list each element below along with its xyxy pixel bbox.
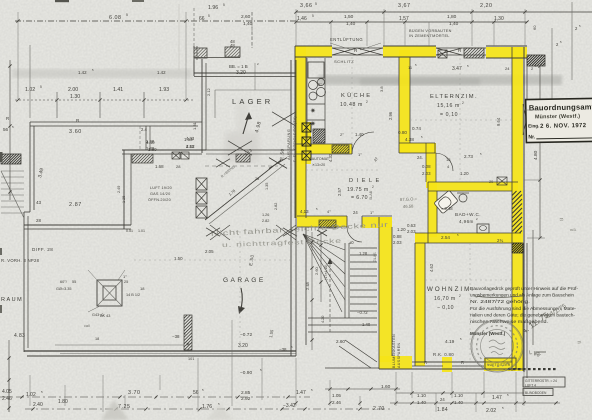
smudge blob near cross mark bbox=[225, 132, 259, 162]
svg-text:4.20: 4.20 bbox=[321, 316, 325, 323]
svg-text:15,16 m: 15,16 m bbox=[437, 103, 460, 109]
svg-text:4.19: 4.19 bbox=[445, 339, 455, 345]
highlighted flue boxes in kitchen west wall bbox=[301, 122, 311, 164]
svg-text:20: 20 bbox=[489, 180, 493, 184]
door arc diele south bbox=[347, 227, 362, 242]
svg-text:1.01: 1.01 bbox=[138, 229, 145, 233]
window between B and C bbox=[436, 47, 486, 49]
svg-text:−0.90: −0.90 bbox=[240, 370, 252, 376]
hatched block left edge bbox=[1, 154, 21, 164]
svg-text:1.47: 1.47 bbox=[296, 390, 306, 396]
svg-text:2.54: 2.54 bbox=[441, 235, 450, 240]
svg-text:18: 18 bbox=[140, 286, 145, 291]
svg-text:✕: ✕ bbox=[186, 342, 190, 348]
vertical witness lines bottom bbox=[8, 358, 10, 412]
svg-text:−0.72: −0.72 bbox=[357, 310, 368, 315]
garage inner south line bbox=[55, 344, 184, 346]
svg-text:1.41: 1.41 bbox=[113, 87, 123, 93]
extra ticks row y393 left of wohnzim bbox=[328, 387, 331, 390]
svg-text:28: 28 bbox=[255, 177, 259, 181]
svg-text:1.50: 1.50 bbox=[174, 256, 183, 261]
top dimension chain row1 right bbox=[296, 11, 592, 13]
svg-text:1,30: 1,30 bbox=[494, 16, 504, 22]
vertical dim lines left of stairs bbox=[311, 232, 313, 350]
diele floor faint lines bbox=[306, 169, 379, 171]
svg-text:R: R bbox=[424, 360, 427, 365]
svg-text:101: 101 bbox=[188, 357, 194, 361]
paper crease faint vertical bbox=[178, 4, 180, 70]
svg-text:4.80: 4.80 bbox=[533, 150, 539, 160]
svg-text:1°: 1° bbox=[370, 210, 374, 215]
door arc kitchen bbox=[352, 132, 374, 154]
svg-text:3.70: 3.70 bbox=[128, 390, 141, 396]
svg-text:R: R bbox=[6, 116, 9, 121]
svg-text:F. EL. STEIGLEITG.(TV): F. EL. STEIGLEITG.(TV) bbox=[293, 116, 297, 162]
top edge dashes bbox=[55, 0, 69, 2]
svg-text:ENTLÜFTUNG: ENTLÜFTUNG bbox=[330, 37, 363, 42]
svg-text:3,66: 3,66 bbox=[300, 3, 313, 9]
chimney block detail bbox=[97, 280, 122, 306]
pencil cross marks bbox=[228, 141, 252, 155]
svg-text:SCHLITZ: SCHLITZ bbox=[334, 59, 354, 64]
svg-text:GØ=3.35: GØ=3.35 bbox=[56, 287, 72, 291]
bauordnungsamt stamp box bbox=[526, 98, 592, 142]
svg-text:2,60: 2,60 bbox=[241, 14, 251, 20]
highlighted wall: stair west wall V4 bbox=[379, 217, 392, 362]
svg-text:1.47: 1.47 bbox=[492, 395, 502, 401]
highlighted wall: V4 foot bbox=[379, 356, 412, 369]
stair bottom flight diagonals bbox=[345, 340, 377, 362]
hatched sill in H2 wall bbox=[332, 145, 349, 153]
svg-text:4.62: 4.62 bbox=[429, 263, 434, 272]
wall y152 left of lager bbox=[122, 149, 206, 151]
window in north wall of kitchen (entlueftung) bbox=[332, 47, 383, 49]
svg-text:= 0,10: = 0,10 bbox=[440, 112, 458, 118]
svg-text:1,57: 1,57 bbox=[399, 16, 409, 22]
svg-text:ELTERNZIM.: ELTERNZIM. bbox=[430, 94, 478, 100]
long diagonal in annex bbox=[205, 160, 281, 220]
svg-text:Nr.: Nr. bbox=[528, 134, 536, 140]
svg-text:5: 5 bbox=[208, 14, 210, 18]
highlighted wall: living room south-west stub pier bbox=[442, 357, 452, 372]
stair wedge diagonals bbox=[303, 234, 345, 250]
svg-text:2.85: 2.85 bbox=[241, 390, 251, 396]
svg-text:1.40: 1.40 bbox=[362, 322, 371, 327]
main house bottom wall lines bbox=[379, 368, 524, 370]
svg-text:1,46: 1,46 bbox=[297, 16, 307, 22]
highlighted wall: kitchen south wall H2 bbox=[295, 144, 352, 154]
faint grid lines interior bbox=[214, 90, 216, 118]
north jog wall x146 bbox=[145, 126, 147, 150]
svg-text:43: 43 bbox=[36, 200, 42, 205]
svg-text:E.50: E.50 bbox=[279, 148, 285, 160]
highlighted wall: top wall segment A bbox=[295, 46, 332, 57]
svg-text:55: 55 bbox=[72, 280, 76, 284]
svg-text:LUFT 19/20: LUFT 19/20 bbox=[150, 186, 172, 190]
living room east wall lines bbox=[511, 243, 513, 371]
hatched stub garage south-east bbox=[184, 315, 192, 350]
svg-text:3.20: 3.20 bbox=[238, 343, 248, 349]
svg-text:2: 2 bbox=[462, 101, 464, 105]
round official stamp bbox=[471, 320, 523, 372]
kitchen counter line bbox=[306, 58, 308, 140]
svg-text:−0.72: −0.72 bbox=[240, 332, 252, 338]
svg-text:2.96: 2.96 bbox=[388, 111, 393, 120]
svg-text:R: R bbox=[461, 360, 464, 365]
garage interior faint lines bbox=[134, 259, 291, 261]
svg-text:56: 56 bbox=[3, 127, 9, 132]
vertical dashed line x140 bbox=[139, 126, 141, 150]
svg-text:Nr. 2487/72 gehörig.: Nr. 2487/72 gehörig. bbox=[470, 299, 530, 304]
svg-text:1.84: 1.84 bbox=[437, 407, 448, 413]
svg-text:2: 2 bbox=[372, 185, 374, 189]
svg-text:3.60: 3.60 bbox=[69, 129, 82, 135]
svg-text:2¾: 2¾ bbox=[497, 238, 503, 243]
svg-text:4.83: 4.83 bbox=[14, 333, 25, 339]
svg-text:10.48 m: 10.48 m bbox=[340, 102, 363, 108]
left vertical chain bottom bbox=[8, 340, 10, 412]
living room west wall pencil bbox=[414, 243, 416, 366]
svg-text:3.20: 3.20 bbox=[236, 70, 246, 76]
door arc bath bbox=[435, 153, 453, 171]
svg-text:2.70: 2.70 bbox=[373, 406, 385, 412]
svg-text:−38: −38 bbox=[172, 334, 180, 339]
bottom dimension line left bbox=[0, 396, 310, 398]
svg-text:2.49: 2.49 bbox=[117, 186, 121, 193]
svg-text:GAS 14/20: GAS 14/20 bbox=[150, 192, 170, 196]
upper area long dashdot vertical bbox=[251, 12, 253, 46]
svg-text:4,13: 4,13 bbox=[300, 209, 309, 214]
hatched sill in H4 wall bbox=[319, 220, 336, 228]
svg-text:2 6. NOV. 1972: 2 6. NOV. 1972 bbox=[540, 123, 587, 130]
east outside witness lines bbox=[527, 65, 545, 67]
svg-text:BÜGEN VORBAUTEN: BÜGEN VORBAUTEN bbox=[409, 29, 452, 33]
svg-text:KÜCHE: KÜCHE bbox=[341, 92, 372, 99]
door sill box elternzim to bath bbox=[497, 177, 507, 185]
elternzim faint cross lines bbox=[410, 119, 512, 121]
svg-text:3,67: 3,67 bbox=[398, 3, 411, 9]
luftgitter box border bbox=[485, 358, 516, 369]
svg-text:2.02: 2.02 bbox=[486, 408, 496, 414]
svg-text:1°: 1° bbox=[358, 152, 362, 157]
svg-text:5: 5 bbox=[126, 13, 128, 17]
south wall window lines living room bbox=[412, 361, 443, 363]
svg-text:1,50: 1,50 bbox=[344, 14, 354, 20]
svg-text:0.88: 0.88 bbox=[393, 234, 402, 239]
svg-text:2.05: 2.05 bbox=[205, 249, 214, 254]
svg-text:2.82: 2.82 bbox=[274, 203, 278, 210]
svg-text:1.80: 1.80 bbox=[58, 399, 68, 405]
svg-text:24: 24 bbox=[353, 210, 358, 215]
lager north wall bbox=[194, 57, 240, 59]
wall y150 extension across annex bbox=[206, 149, 296, 151]
highlighted wall: top wall segment C bbox=[486, 47, 527, 58]
svg-text:BLUMENKASTEN: BLUMENKASTEN bbox=[392, 334, 396, 368]
svg-text:24: 24 bbox=[505, 66, 510, 71]
bath walls pencil bbox=[428, 181, 518, 183]
svg-text:5: 5 bbox=[40, 85, 42, 89]
hatched piers on wall y154 bbox=[132, 154, 153, 163]
svg-text:87.G.O.=: 87.G.O.= bbox=[400, 196, 418, 202]
svg-text:4.05: 4.05 bbox=[2, 389, 12, 395]
kitchen walls pencil lines bbox=[295, 45, 332, 47]
svg-text:LAGER: LAGER bbox=[232, 97, 273, 106]
svg-text:AUSSPAREN: AUSSPAREN bbox=[397, 342, 401, 368]
svg-text:0.08: 0.08 bbox=[422, 164, 431, 169]
highlighted wall: luftgitter box on south wall bbox=[484, 358, 517, 371]
svg-text:BLINDBODEN: BLINDBODEN bbox=[525, 391, 547, 395]
highlighted wall: living room east wall bbox=[512, 243, 523, 371]
bath east wall hatching bbox=[512, 191, 522, 233]
svg-text:0.80: 0.80 bbox=[398, 130, 407, 135]
svg-text:0.63: 0.63 bbox=[407, 223, 416, 228]
svg-text:1.10: 1.10 bbox=[454, 393, 463, 398]
svg-text:1.40: 1.40 bbox=[146, 139, 155, 144]
svg-text:1,40: 1,40 bbox=[243, 21, 253, 27]
left vertical dim x10 bbox=[9, 60, 11, 200]
svg-text:2.73: 2.73 bbox=[464, 154, 473, 159]
svg-text:±0: ±0 bbox=[349, 240, 354, 245]
stair west boundary line bbox=[305, 227, 307, 345]
svg-text:Eing.: Eing. bbox=[528, 123, 539, 128]
svg-text:4.32: 4.32 bbox=[328, 153, 333, 162]
highlighted wall: diele north wall H3 bbox=[399, 143, 435, 153]
svg-text:call: call bbox=[84, 324, 90, 328]
svg-text:1.20: 1.20 bbox=[397, 227, 406, 232]
svg-text:2.60: 2.60 bbox=[314, 266, 319, 275]
svg-text:2 AUTOMAT: 2 AUTOMAT bbox=[309, 157, 330, 161]
east wall window cross marks elternzim bbox=[523, 104, 530, 135]
svg-text:2.82: 2.82 bbox=[262, 219, 269, 223]
svg-text:60°/: 60°/ bbox=[60, 280, 68, 284]
svg-text:GLAS: GLAS bbox=[373, 252, 377, 262]
svg-text:AUSSPARUNG: AUSSPARUNG bbox=[287, 129, 291, 160]
svg-text:2.87: 2.87 bbox=[69, 202, 82, 208]
svg-text:1.30: 1.30 bbox=[70, 94, 80, 100]
svg-text:D I E L E: D I E L E bbox=[349, 178, 380, 184]
svg-text:2,20: 2,20 bbox=[480, 3, 493, 9]
svg-text:4°: 4° bbox=[327, 209, 331, 214]
svg-text:2°: 2° bbox=[318, 82, 322, 87]
svg-text:2.12: 2.12 bbox=[206, 87, 211, 96]
svg-text:R.K. 0.80: R.K. 0.80 bbox=[433, 352, 454, 357]
svg-text:1.80: 1.80 bbox=[146, 146, 155, 151]
svg-text:≈ 0,48: ≈ 0,48 bbox=[441, 206, 453, 211]
highlighted wall: diele south wall H4 bbox=[297, 216, 347, 227]
svg-text:1.28: 1.28 bbox=[359, 251, 368, 256]
small box with X near B end bbox=[438, 50, 447, 58]
hatched block right of segment C bbox=[527, 55, 545, 66]
scanner smudge band right bbox=[318, 75, 562, 85]
highlighted wall: bath north wall bbox=[428, 182, 518, 191]
highlighted wall: main house NW vertical (kitchen west) bbox=[295, 46, 306, 218]
lager north arrow bbox=[243, 114, 249, 134]
svg-text:6.08: 6.08 bbox=[109, 15, 122, 21]
svg-text:4,96m: 4,96m bbox=[459, 219, 474, 224]
svg-text:66: 66 bbox=[199, 16, 205, 22]
svg-text:48: 48 bbox=[230, 43, 235, 48]
svg-text:0.51: 0.51 bbox=[126, 229, 133, 233]
dashed line y166 annex bbox=[205, 165, 278, 167]
svg-text:5: 5 bbox=[223, 3, 225, 7]
highlighted wall: bath west wall bbox=[428, 182, 437, 237]
svg-text:2°: 2° bbox=[340, 132, 344, 137]
wall between lager annex and left part bbox=[201, 59, 203, 153]
svg-text:1.96: 1.96 bbox=[208, 5, 218, 11]
svg-text:(17×4,10): (17×4,10) bbox=[324, 265, 328, 280]
svg-text:1.26: 1.26 bbox=[262, 213, 269, 217]
kitchen dark hatch unit bbox=[313, 129, 325, 143]
svg-text:2.03: 2.03 bbox=[422, 171, 431, 176]
outer wall lines: left building bbox=[30, 121, 202, 123]
svg-text:✕13×20: ✕13×20 bbox=[312, 163, 325, 167]
svg-text:LUFT 4: LUFT 4 bbox=[525, 384, 536, 388]
highlighted wall: top wall segment B bbox=[383, 46, 436, 57]
svg-text:1.31: 1.31 bbox=[192, 121, 197, 130]
svg-text:1.40: 1.40 bbox=[417, 400, 426, 405]
svg-text:Bauordnungsamt: Bauordnungsamt bbox=[529, 102, 592, 112]
highlighted wall: H4 stub to stair wall bbox=[362, 217, 392, 228]
annex west wall bbox=[193, 46, 195, 76]
svg-text:25: 25 bbox=[124, 280, 128, 284]
cross braces in annex bbox=[210, 225, 230, 240]
svg-text:2.57: 2.57 bbox=[337, 187, 342, 196]
bath sink bbox=[459, 194, 467, 202]
svg-text:0.74: 0.74 bbox=[412, 126, 421, 131]
highlighted wall: living room west wall bbox=[415, 233, 425, 366]
svg-text:BB. = 1 B: BB. = 1 B bbox=[229, 64, 248, 69]
garage north wall bbox=[24, 224, 131, 226]
gitterrost label boxes bbox=[523, 377, 565, 387]
stair walk line arrow bbox=[329, 262, 331, 332]
bottom smudge triangle bbox=[101, 400, 129, 420]
svg-text:ÖFFN.20/20: ÖFFN.20/20 bbox=[148, 198, 171, 202]
svg-text:1.68: 1.68 bbox=[155, 164, 164, 169]
svg-text:1.40: 1.40 bbox=[454, 400, 463, 405]
svg-text:≈≈: ≈≈ bbox=[570, 227, 578, 234]
staircase treads main house bbox=[350, 247, 377, 249]
svg-text:2: 2 bbox=[366, 100, 368, 104]
flue boxes near lager wall bbox=[196, 178, 207, 190]
highlighted wall: bath south wall bbox=[415, 233, 521, 243]
left building external stair bbox=[1, 170, 24, 172]
svg-text:Münster (Westf.): Münster (Westf.) bbox=[535, 114, 580, 121]
top dimension chain row1 left bbox=[15, 20, 296, 22]
svg-text:1,40: 1,40 bbox=[449, 21, 459, 27]
bathtub bbox=[434, 190, 458, 214]
svg-text:1.42: 1.42 bbox=[78, 70, 87, 75]
svg-text:18: 18 bbox=[95, 337, 99, 341]
svg-text:2: 2 bbox=[459, 294, 461, 298]
hatched pier in north window bbox=[464, 48, 484, 58]
svg-text:2.00: 2.00 bbox=[68, 87, 78, 93]
svg-text:2.03: 2.03 bbox=[407, 229, 416, 234]
svg-text:1.10: 1.10 bbox=[417, 393, 426, 398]
svg-text:1.93: 1.93 bbox=[159, 87, 169, 93]
svg-text:−38: −38 bbox=[279, 347, 287, 352]
svg-text:1.35: 1.35 bbox=[265, 183, 269, 190]
inner vertical wall x124 bbox=[123, 150, 125, 229]
svg-text:46.58: 46.58 bbox=[403, 203, 414, 209]
svg-text:28: 28 bbox=[176, 164, 181, 169]
svg-text:2.46: 2.46 bbox=[332, 400, 341, 405]
svg-text:2.40: 2.40 bbox=[33, 402, 43, 408]
svg-text:24: 24 bbox=[440, 397, 445, 402]
vertical reference lines top area bbox=[29, 45, 31, 118]
svg-text:24.: 24. bbox=[417, 155, 423, 160]
kitchen sink circles bbox=[309, 81, 318, 90]
svg-text:DIFF. 28: DIFF. 28 bbox=[32, 247, 53, 252]
svg-text:28: 28 bbox=[36, 218, 41, 223]
diele / stair walls pencil bbox=[297, 215, 347, 217]
svg-text:= 6.70: = 6.70 bbox=[351, 195, 368, 201]
kitchen fridge box bbox=[308, 62, 324, 78]
left edge dark dashes bbox=[0, 152, 3, 162]
svg-text:4.38: 4.38 bbox=[405, 137, 414, 142]
wc bbox=[477, 224, 489, 233]
svg-text:16,70 m: 16,70 m bbox=[434, 296, 456, 302]
svg-text:3.8: 3.8 bbox=[379, 86, 384, 92]
svg-text:5: 5 bbox=[312, 14, 314, 18]
north porch piers bbox=[194, 48, 207, 58]
svg-text:1,80: 1,80 bbox=[447, 14, 457, 20]
svg-text:1°: 1° bbox=[123, 274, 127, 279]
svg-text:✷: ✷ bbox=[310, 107, 316, 115]
chimney leader lines bbox=[88, 270, 97, 280]
top dimension chain row2 right bbox=[296, 21, 527, 23]
highlighted wall: bath jog at H3 bbox=[426, 143, 436, 188]
svg-text:1.42: 1.42 bbox=[157, 70, 166, 75]
svg-text:R. VORH. 3 NP28: R. VORH. 3 NP28 bbox=[1, 258, 40, 263]
witness lines top chains bbox=[295, 9, 297, 46]
svg-text:− 0,10: − 0,10 bbox=[437, 305, 454, 311]
svg-text:9.64: 9.64 bbox=[496, 117, 501, 126]
svg-text:60: 60 bbox=[532, 25, 537, 30]
svg-text:2.48: 2.48 bbox=[305, 281, 310, 290]
svg-text:IN ZEMENTMÖRTEL: IN ZEMENTMÖRTEL bbox=[409, 34, 450, 38]
svg-text:−3.42: −3.42 bbox=[283, 403, 296, 409]
svg-text:1.40: 1.40 bbox=[355, 132, 364, 137]
kitchen flue boxes with X bbox=[302, 123, 311, 132]
wohnzim faint lines bbox=[425, 279, 512, 281]
svg-text:RAUM: RAUM bbox=[1, 297, 23, 303]
svg-text:WOHNZIM.: WOHNZIM. bbox=[427, 286, 475, 293]
highlighted wall: east wall upper (V5) bbox=[512, 47, 523, 243]
svg-text:1 25: 1 25 bbox=[122, 196, 126, 203]
round stamp arc text bbox=[517, 346, 518, 348]
svg-text:19.75 m: 19.75 m bbox=[347, 187, 369, 193]
main house east wall outer line bbox=[523, 47, 525, 372]
svg-text:14 B 1/2: 14 B 1/2 bbox=[126, 293, 140, 297]
svg-text:3.47: 3.47 bbox=[452, 66, 462, 72]
highlighted wall: kitchen east wall V2 bbox=[399, 50, 410, 153]
svg-text:2.4: 2.4 bbox=[141, 127, 147, 132]
svg-text:5: 5 bbox=[315, 2, 317, 6]
svg-text:2.60: 2.60 bbox=[336, 339, 345, 344]
stair stringer double line bbox=[344, 243, 346, 318]
small flue boxes annex mid bbox=[172, 152, 180, 159]
hatched corner square on east wall bbox=[512, 243, 523, 253]
garage down arrow bbox=[240, 288, 242, 312]
garden wall lines east of house bbox=[526, 243, 528, 378]
svg-text:1,40: 1,40 bbox=[346, 21, 356, 27]
svg-text:1.20: 1.20 bbox=[460, 171, 469, 176]
svg-text:1.05: 1.05 bbox=[332, 393, 341, 398]
svg-text:GARAGE: GARAGE bbox=[223, 277, 266, 284]
svg-text:SLAB: SLAB bbox=[369, 190, 373, 200]
svg-text:Bauvorlagedrck geprüft unter H: Bauvorlagedrck geprüft unter Hinweis auf… bbox=[470, 286, 579, 291]
svg-text:GITTERROSTR. ≈ 24: GITTERROSTR. ≈ 24 bbox=[525, 379, 557, 383]
